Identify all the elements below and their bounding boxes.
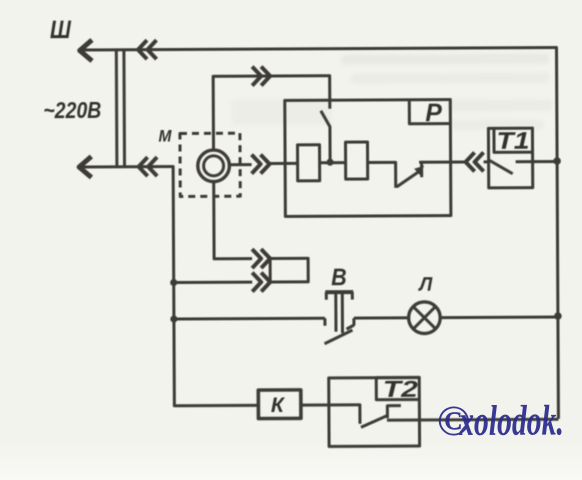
svg-text:Р: Р [425, 99, 442, 127]
svg-text:В: В [331, 264, 347, 291]
svg-text:Т2: Т2 [383, 376, 418, 402]
svg-text:К: К [271, 394, 286, 417]
svg-text:Ш: Ш [50, 16, 72, 44]
svg-text:М: М [158, 127, 172, 146]
svg-text:Т1: Т1 [496, 128, 529, 155]
svg-text:~220В: ~220В [43, 97, 101, 123]
svg-text:Л: Л [417, 275, 433, 296]
